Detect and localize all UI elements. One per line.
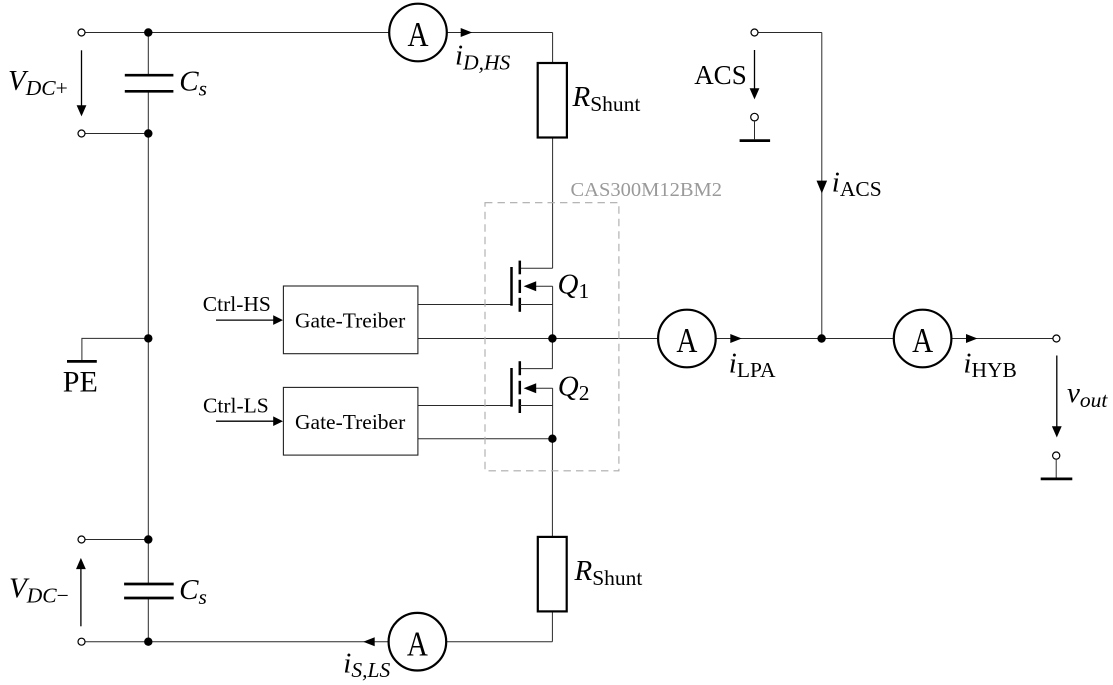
junction dot PE <box>144 334 152 342</box>
resistor R_Shunt top <box>538 63 567 138</box>
arrow Ctrl-HS <box>216 315 283 325</box>
junction dot mid node <box>548 334 556 342</box>
svg-text:Ctrl-LS: Ctrl-LS <box>203 393 269 417</box>
junction dot ACS tap <box>817 334 825 342</box>
ammeter A2 i_LPA <box>658 310 716 368</box>
terminal V_DC- top <box>78 536 85 543</box>
wire bottom ammeter to corner <box>446 641 552 643</box>
wire left bus upper segment <box>147 33 149 76</box>
svg-text:A: A <box>912 321 934 360</box>
junction dot bottom bus <box>144 638 152 646</box>
svg-text:A: A <box>408 15 430 54</box>
wire R shunt bottom to Q1 drain <box>552 137 554 268</box>
ammeter A1 top <box>389 4 447 62</box>
svg-text:CAS300M12BM2: CAS300M12BM2 <box>571 179 723 201</box>
svg-text:A: A <box>676 321 698 360</box>
svg-text:PE: PE <box>63 366 98 399</box>
wire Q1 gate lead <box>418 304 512 306</box>
wire second terminal to bus <box>82 133 149 135</box>
arrow i_ACS on branch <box>817 181 828 194</box>
arrow i_S,LS <box>363 637 375 646</box>
arrow V_DC- <box>76 558 86 626</box>
wire ammeter to top corner <box>447 32 553 34</box>
wire HYB ammeter to output terminal <box>951 338 1056 340</box>
resistor R_Shunt bottom <box>538 537 567 612</box>
wire mid node line from HS driver to LPA ammeter <box>418 338 658 340</box>
capacitor C_s top <box>125 75 174 91</box>
transistor Q2 <box>512 339 553 439</box>
arrow i_HYB <box>966 334 978 343</box>
terminal ACS <box>751 29 758 36</box>
junction dot Q2 source node <box>548 435 556 443</box>
wire ACS terminal to vertical <box>755 32 822 34</box>
wire V_DC- terminal to bus <box>82 539 149 541</box>
arrow Ctrl-LS <box>216 416 283 426</box>
wire left bus middle segment <box>147 91 149 584</box>
ground PE <box>67 360 97 363</box>
wire corner up to R shunt 2 bottom <box>551 611 553 641</box>
arrow ACS <box>750 50 760 99</box>
wire Q2 node down to R shunt 2 top <box>551 439 553 537</box>
ammeter A4 i_S,LS <box>389 613 447 671</box>
arrow V_DC+ <box>77 50 87 116</box>
wire ACS vertical branch <box>821 33 823 339</box>
wire Q2 gate lead <box>418 405 512 407</box>
gate driver box HS <box>283 286 418 354</box>
wire left bus lower segment <box>147 598 149 642</box>
svg-text:Ctrl-HS: Ctrl-HS <box>203 292 271 316</box>
junction dot second <box>144 129 152 137</box>
terminal output <box>1053 335 1060 342</box>
wire LS driver kelvin lead to Q2 node <box>418 438 553 440</box>
arrow i_D,HS <box>461 28 473 37</box>
wire LPA ammeter to HYB ammeter <box>716 338 895 340</box>
junction dot V_DC- <box>144 535 152 543</box>
terminal V_DC+ bottom <box>78 130 85 137</box>
wire top rail to ammeter <box>148 32 389 34</box>
transistor Q1 <box>512 261 553 339</box>
ground v_out <box>1041 452 1073 479</box>
svg-text:Gate-Treiber: Gate-Treiber <box>295 410 405 434</box>
terminal V_DC+ top <box>78 29 85 36</box>
svg-text:A: A <box>407 624 429 663</box>
svg-text:ACS: ACS <box>694 60 747 90</box>
junction dot top bus <box>144 28 152 36</box>
dashed module outline CAS300M12BM2 <box>485 203 619 471</box>
arrow i_LPA <box>730 334 742 343</box>
arrow v_out <box>1052 356 1062 438</box>
svg-text:Gate-Treiber: Gate-Treiber <box>295 309 405 333</box>
wire bottom rail <box>82 641 389 643</box>
capacitor C_s bottom <box>124 584 174 598</box>
ground ACS <box>740 113 771 140</box>
wire corner down to R shunt top <box>552 33 554 64</box>
wire PE stub <box>82 338 148 360</box>
wire top-left terminal to bus <box>82 32 149 34</box>
gate driver box LS <box>283 387 418 455</box>
ammeter A3 i_HYB <box>894 310 952 368</box>
terminal V_DC- bottom <box>78 638 85 645</box>
